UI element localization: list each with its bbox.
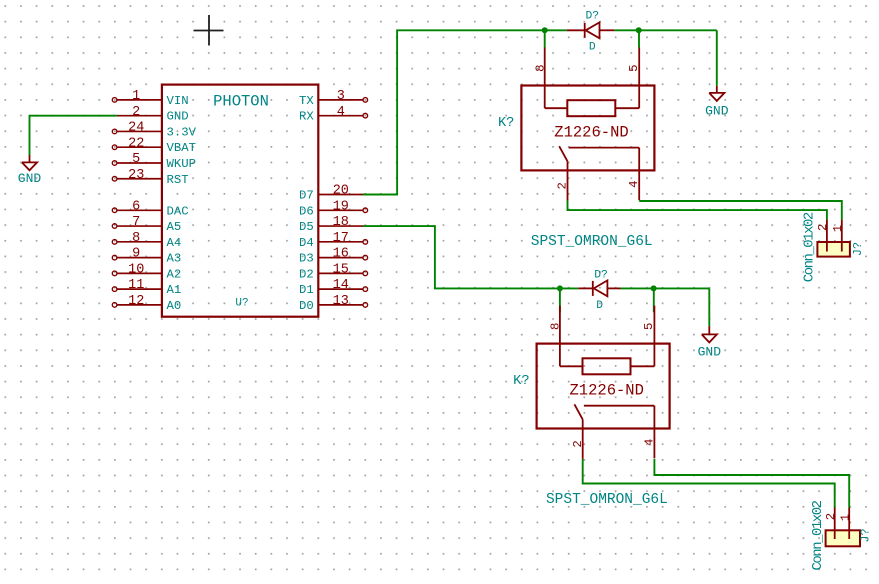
svg-text:VBAT: VBAT (167, 141, 197, 155)
pin 15 D2 (299, 263, 368, 282)
pin 17 D4 (299, 231, 368, 250)
pin 11 A1 (112, 278, 181, 297)
junction node bottom-left (557, 285, 563, 291)
svg-text:12: 12 (128, 294, 144, 309)
svg-text:D: D (596, 300, 603, 312)
svg-text:6: 6 (132, 199, 140, 214)
svg-text:16: 16 (333, 247, 349, 262)
svg-text:D?: D? (586, 11, 600, 23)
pin 3 TX (299, 89, 368, 108)
svg-text:24: 24 (128, 121, 144, 136)
relay K1 body Z1226-ND (521, 86, 654, 171)
junction node top-left (542, 27, 548, 33)
svg-text:9: 9 (132, 247, 140, 262)
pin 7 A5 (112, 215, 181, 234)
wire stub to K2 pin 8 (559, 288, 561, 312)
svg-text:GND: GND (18, 171, 42, 186)
wire K2 pin2 to J2 pin2 (583, 459, 835, 508)
connector J1 pin 1 (831, 220, 845, 252)
wire stub to K2 pin 5 (653, 288, 655, 312)
svg-text:8: 8 (132, 231, 140, 246)
svg-text:4: 4 (627, 181, 641, 188)
relay K2 switch contact line (584, 405, 655, 407)
svg-text:RX: RX (299, 110, 314, 124)
cursor crosshair (194, 15, 224, 46)
svg-text:11: 11 (128, 278, 144, 293)
svg-text:5: 5 (132, 152, 140, 167)
svg-text:J?: J? (851, 242, 865, 256)
connector J1 Conn_01x02 body (817, 242, 850, 257)
svg-text:SPST_OMRON_G6L: SPST_OMRON_G6L (546, 492, 668, 508)
wire diode D2 cathode to GND3 (621, 287, 710, 289)
svg-text:1: 1 (831, 225, 845, 232)
svg-text:17: 17 (333, 231, 349, 246)
diode D1 (567, 22, 614, 38)
svg-text:Conn_01x02: Conn_01x02 (810, 500, 826, 570)
svg-text:D7: D7 (299, 189, 314, 203)
relay K1 pin 5 (615, 48, 641, 109)
relay K2 pin 4 (642, 406, 656, 459)
connector J2 Conn_01x02 body (826, 530, 860, 546)
pin 2 GND (117, 105, 189, 124)
diode D2 (578, 280, 620, 296)
connector J2 pin 2 (824, 508, 838, 540)
svg-text:3.3V: 3.3V (167, 126, 197, 140)
connector J2 pin 1 (839, 508, 853, 540)
wire down to GND3 (708, 288, 710, 326)
wire U1 pin18 D5 to diode D2 anode net (363, 226, 578, 288)
pin 16 D3 (299, 247, 368, 266)
junction node top-right (636, 27, 642, 33)
svg-text:D3: D3 (299, 252, 314, 266)
svg-text:3: 3 (337, 89, 345, 104)
wire K1 pin4 to J1 pin1 (639, 201, 842, 220)
wire diode D1 cathode to GND2 (614, 29, 717, 31)
svg-text:18: 18 (333, 215, 349, 230)
svg-text:J?: J? (858, 528, 872, 542)
svg-text:GND: GND (167, 110, 189, 124)
svg-text:SPST_OMRON_G6L: SPST_OMRON_G6L (531, 234, 653, 250)
pin 19 D6 (299, 199, 368, 218)
relay K1 coil rectangle (567, 100, 615, 116)
svg-text:D: D (589, 41, 596, 53)
pin 1 VIN (112, 89, 188, 108)
svg-text:8: 8 (549, 323, 563, 330)
pin 5 WKUP (112, 152, 196, 171)
relay K1 switch contact line (569, 147, 640, 149)
svg-text:A0: A0 (167, 299, 182, 313)
junction node bottom-right (651, 285, 657, 291)
svg-text:WKUP: WKUP (167, 157, 197, 171)
IC U1 PHOTON body (162, 85, 318, 317)
svg-text:D?: D? (594, 270, 608, 282)
svg-text:TX: TX (299, 94, 314, 108)
svg-text:5: 5 (642, 323, 656, 330)
wire down to GND2 (716, 30, 718, 86)
svg-text:A3: A3 (167, 252, 182, 266)
relay K2 pin 5 (631, 306, 657, 367)
pin 9 A3 (112, 247, 181, 266)
svg-text:A1: A1 (167, 283, 182, 297)
svg-text:Conn_01x02: Conn_01x02 (802, 212, 818, 282)
svg-text:20: 20 (333, 184, 349, 199)
wire U1 pin2 to GND (30, 116, 117, 155)
svg-text:1: 1 (132, 89, 140, 104)
pin 18 D5 (299, 215, 363, 234)
pin 10 A2 (112, 263, 181, 282)
svg-text:2: 2 (556, 182, 570, 189)
svg-text:D2: D2 (299, 267, 314, 281)
svg-text:4: 4 (642, 439, 656, 446)
ground GND2 (705, 86, 729, 119)
svg-text:GND: GND (705, 103, 729, 118)
pin 24 3.3V (112, 121, 196, 140)
svg-text:14: 14 (333, 278, 349, 293)
svg-text:A2: A2 (167, 267, 182, 281)
relay K2 pin 8 (549, 306, 583, 367)
connector J1 pin 2 (816, 220, 830, 252)
svg-text:13: 13 (333, 294, 349, 309)
svg-text:D6: D6 (299, 204, 314, 218)
svg-text:23: 23 (128, 168, 144, 183)
svg-text:8: 8 (533, 65, 547, 72)
wire stub to K1 pin 5 (638, 30, 640, 47)
pin 22 VBAT (112, 136, 196, 155)
svg-text:RST: RST (167, 173, 189, 187)
svg-text:Z1226-ND: Z1226-ND (554, 123, 628, 141)
svg-text:2: 2 (824, 513, 838, 520)
wire U1 pin20 D7 to diode D1 anode net (363, 30, 567, 194)
svg-text:VIN: VIN (167, 94, 189, 108)
svg-text:2: 2 (816, 224, 830, 231)
svg-text:2: 2 (132, 105, 140, 120)
svg-text:A4: A4 (167, 236, 182, 250)
pin 4 RX (299, 105, 368, 124)
svg-text:D0: D0 (299, 299, 314, 313)
wire K1 pin2 to J1 pin2 (568, 200, 827, 219)
svg-text:D1: D1 (299, 283, 314, 297)
pin 8 A4 (112, 231, 181, 250)
svg-text:7: 7 (132, 215, 140, 230)
pin 12 A0 (112, 294, 181, 313)
svg-text:U?: U? (235, 297, 248, 309)
relay K2 switch blade (574, 404, 582, 419)
relay K1 pin 8 (533, 48, 567, 109)
relay K1 pin 4 (627, 148, 641, 201)
svg-text:10: 10 (128, 263, 144, 278)
pin 14 D1 (299, 278, 368, 297)
relay K2 coil rectangle (583, 358, 631, 374)
svg-text:K?: K? (498, 116, 514, 131)
svg-text:1: 1 (839, 514, 853, 521)
svg-text:D5: D5 (299, 220, 314, 234)
relay K2 body Z1226-ND (537, 344, 670, 429)
relay K1 switch blade (559, 146, 567, 161)
svg-text:K?: K? (513, 374, 529, 389)
relay K2 pin 2 (571, 419, 585, 459)
svg-text:15: 15 (333, 263, 349, 278)
svg-text:A5: A5 (167, 220, 182, 234)
svg-text:22: 22 (128, 136, 144, 151)
svg-text:D4: D4 (299, 236, 314, 250)
pin 13 D0 (299, 294, 368, 313)
svg-text:DAC: DAC (167, 204, 189, 218)
pin 23 RST (112, 168, 188, 187)
svg-text:19: 19 (333, 199, 349, 214)
wire K2 pin4 to J2 pin1 (654, 459, 849, 508)
pin 6 DAC (112, 199, 188, 218)
pin 20 D7 (299, 184, 363, 203)
svg-text:2: 2 (571, 440, 585, 447)
relay K1 pin 2 (556, 161, 570, 201)
svg-text:Z1226-ND: Z1226-ND (569, 382, 643, 400)
wire stub to K1 pin 8 (544, 30, 546, 47)
ground GND3 (698, 326, 722, 359)
svg-text:5: 5 (627, 65, 641, 72)
svg-text:PHOTON: PHOTON (213, 92, 269, 110)
ground GND1 (18, 155, 42, 186)
svg-text:GND: GND (698, 344, 722, 359)
svg-text:4: 4 (337, 105, 345, 120)
